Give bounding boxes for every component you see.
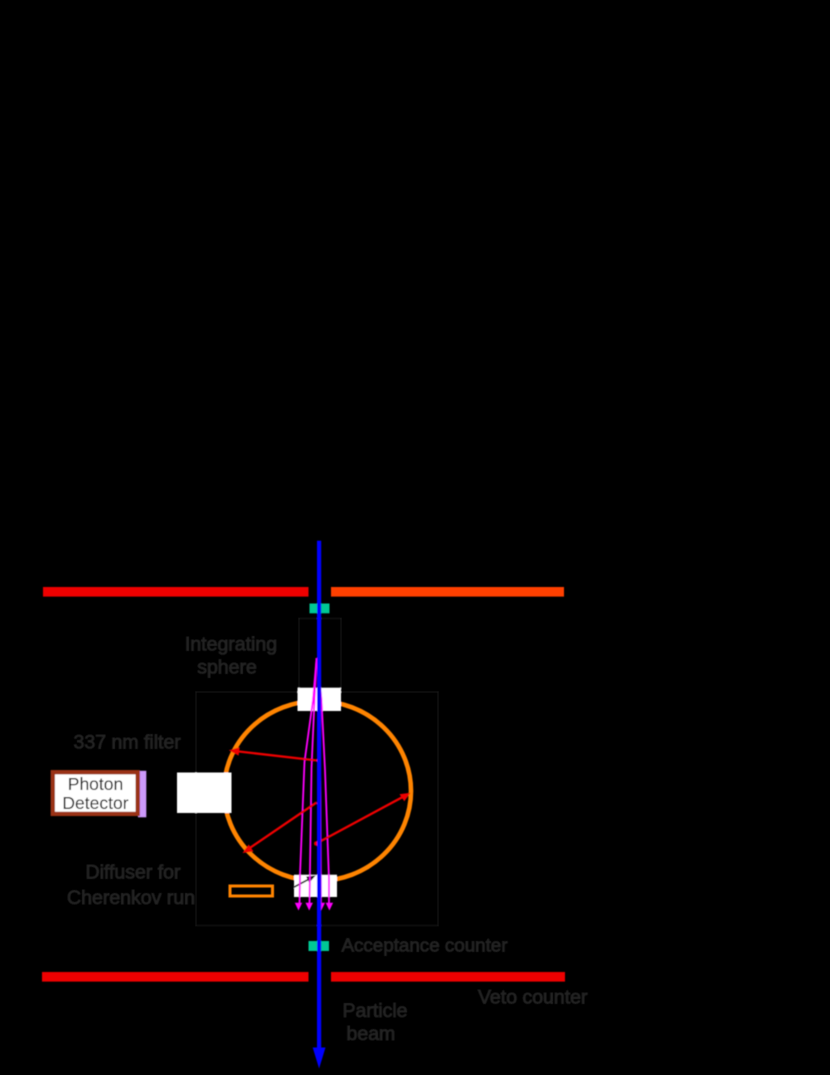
detector port (white box left) [177, 773, 232, 814]
ray 1 [300, 659, 317, 904]
red ray to lower-left wall [248, 803, 317, 850]
svg-text:beam: beam [347, 1023, 396, 1045]
diffuser (orange small rect) [230, 886, 273, 896]
label Integrating sphere [185, 634, 277, 679]
svg-text:Photon: Photon [68, 774, 123, 794]
entrance tube (faint) [299, 619, 341, 689]
ray stub above pinch [315, 658, 318, 663]
svg-text:Veto counter: Veto counter [478, 987, 588, 1009]
top finger counter (teal) [310, 604, 330, 614]
label Diffuser for Cherenkov run [67, 862, 195, 910]
reflected photon rays (red) [229, 747, 411, 853]
svg-text:Integrating: Integrating [185, 634, 277, 656]
ray 2 [310, 659, 317, 904]
particle beam line (blue) [317, 541, 321, 1049]
ray 3 [318, 659, 322, 904]
exit port (white box bottom) [294, 875, 337, 897]
svg-text:Diffuser for: Diffuser for [85, 862, 181, 884]
photon detector label [62, 774, 128, 813]
integrating sphere (orange circle) [224, 701, 411, 881]
svg-text:Particle: Particle [343, 1000, 408, 1022]
black arrow to exit port [281, 875, 316, 894]
red ray to left wall [239, 752, 317, 761]
svg-text:Detector: Detector [62, 793, 128, 813]
ray 4 [318, 659, 330, 904]
entrance port (white box top) [298, 688, 342, 711]
trigger counter top-right (orange-red bar) [331, 587, 564, 597]
bottom finger counter (teal) [309, 941, 330, 951]
beam arrowhead [313, 1048, 326, 1069]
svg-text:Acceptance counter: Acceptance counter [342, 935, 508, 956]
svg-text:Cherenkov run: Cherenkov run [67, 887, 195, 909]
acceptance counter left (red bar) [42, 972, 309, 982]
scattered light rays (magenta) [295, 658, 333, 911]
photon detector shadow [138, 771, 146, 818]
label Particle beam [343, 1000, 408, 1045]
svg-text:337 nm filter: 337 nm filter [74, 732, 182, 754]
trigger counter top-left (red bar) [43, 587, 309, 597]
red ray to right wall [314, 841, 319, 846]
photon detector box [53, 772, 138, 814]
acceptance counter right (red bar) [331, 972, 565, 982]
enclosure box (faint) [196, 692, 438, 926]
svg-text:sphere: sphere [197, 657, 257, 679]
